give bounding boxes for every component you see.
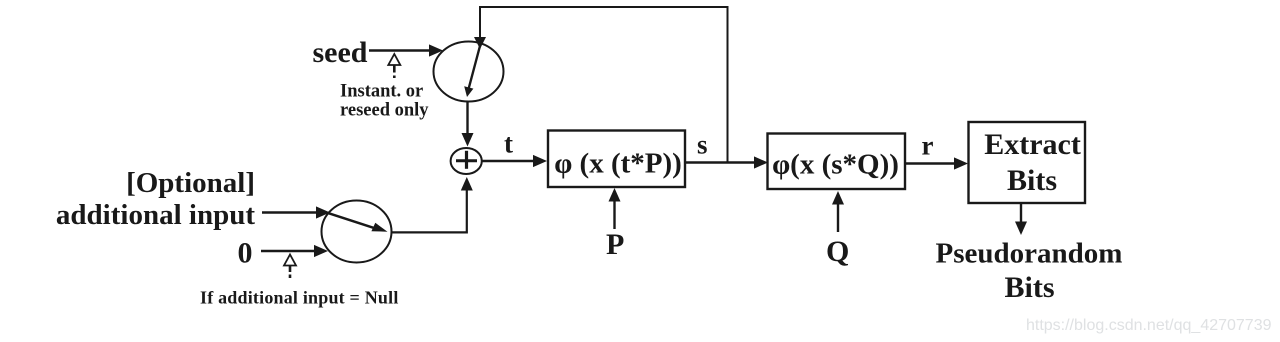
switch S2 circle: [322, 201, 392, 263]
wire extract box to output: [1015, 204, 1027, 236]
feedback wire from s node to switch S1: [474, 7, 728, 162]
label Instant. or reseed only: [340, 82, 429, 121]
label 0: [238, 237, 253, 270]
wire additional input to switch S2: [262, 206, 330, 218]
label Optional additional input: [56, 167, 255, 231]
box F1 phi(x(t*P)): [548, 131, 685, 188]
switch S2 arm: [329, 213, 388, 232]
svg-text:Pseudorandom: Pseudorandom: [936, 238, 1123, 270]
svg-text:0: 0: [238, 237, 253, 270]
svg-text:Q: Q: [826, 235, 849, 268]
svg-text:P: P: [606, 228, 624, 261]
label Q: [826, 235, 849, 268]
adder node +: [451, 148, 482, 174]
wire s node to box F2: [685, 156, 768, 168]
svg-text:t: t: [504, 129, 513, 159]
svg-text:r: r: [922, 131, 934, 161]
wire 0 to switch S2: [261, 245, 328, 257]
box Extract Bits: [969, 122, 1086, 203]
wire box F2 to extract box: [905, 157, 968, 169]
label seed: [313, 36, 368, 69]
hollow arrow if-null select: [284, 255, 296, 279]
wire switch S1 to adder: [462, 102, 474, 147]
watermark: [1026, 317, 1272, 334]
svg-text:[Optional]: [Optional]: [126, 167, 255, 199]
svg-text:φ (x (t*P)): φ (x (t*P)): [554, 148, 682, 180]
svg-text:If additional input = Null: If additional input = Null: [200, 288, 399, 308]
hollow arrow instantiate/reseed select: [388, 54, 400, 78]
label If additional input = Null: [200, 288, 399, 308]
wire Q to box F2: [832, 191, 844, 232]
switch S1 arm: [464, 44, 480, 97]
label r: [922, 131, 934, 161]
label Pseudorandom Bits: [936, 238, 1123, 305]
svg-text:reseed only: reseed only: [340, 101, 429, 121]
label t: [504, 129, 513, 159]
svg-text:Extract: Extract: [984, 128, 1081, 161]
wire P to box F1: [609, 188, 621, 229]
svg-text:seed: seed: [313, 36, 368, 69]
svg-text:Bits: Bits: [1007, 164, 1057, 197]
box F2 phi(x(s*Q)): [768, 134, 906, 190]
label s: [697, 130, 708, 160]
svg-text:additional input: additional input: [56, 199, 255, 231]
svg-text:https://blog.csdn.net/qq_42707: https://blog.csdn.net/qq_42707739: [1026, 317, 1272, 334]
label P: [606, 228, 624, 261]
switch S1 circle: [434, 42, 504, 102]
wire adder to box F1: [482, 155, 548, 167]
svg-text:s: s: [697, 130, 708, 160]
svg-text:Bits: Bits: [1004, 271, 1054, 304]
svg-text:φ(x (s*Q)): φ(x (s*Q)): [772, 149, 899, 181]
wire switch S2 to adder: [391, 177, 473, 232]
svg-text:Instant. or: Instant. or: [340, 82, 423, 102]
wire seed to switch S1: [369, 44, 443, 56]
